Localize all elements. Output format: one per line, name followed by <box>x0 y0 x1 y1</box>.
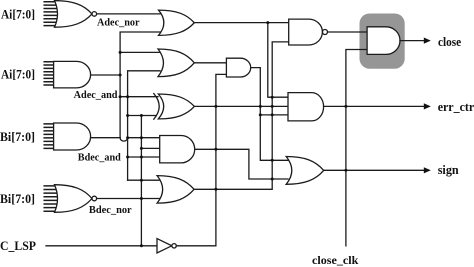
wire XOR in2 from V2 <box>128 115 156 117</box>
gate AND2 small <box>226 58 250 77</box>
wire inverter out to V4 riser <box>176 74 226 245</box>
svg-text:Adec_and: Adec_and <box>74 90 118 101</box>
wire AND3 in3 from V2 <box>128 156 161 158</box>
wire hop under at V1-V2 <box>120 138 128 141</box>
gate AND3 err <box>288 93 324 121</box>
wire NAND out to highlighted AND <box>328 31 367 33</box>
svg-text:err_ctr: err_ctr <box>438 100 474 114</box>
svg-text:Bi[7:0]: Bi[7:0] <box>0 191 35 206</box>
wire bus teeth Adec_and <box>44 62 56 85</box>
wire V2 distribution <box>128 71 160 180</box>
gate XOR2_1 extra arc <box>154 94 159 120</box>
gate NOR8 Bdec_nor <box>55 185 97 213</box>
wire err_ctr output with arrow <box>324 105 425 107</box>
gate inverter U1 <box>157 239 176 253</box>
wire ANDsm output to V6 <box>251 68 289 161</box>
wire XOR output to ANDerr in2 <box>194 105 288 107</box>
gate AND close (highlighted) <box>367 27 400 55</box>
gate AND8 Bdec_and <box>54 123 91 150</box>
gate XOR2_1 body <box>158 94 194 119</box>
wire bus teeth Adec_nor <box>44 2 58 26</box>
highlight box around close AND gate <box>360 14 405 69</box>
wire close output with arrow <box>400 40 425 42</box>
wire OR2_2 output to ANDsm <box>194 62 226 64</box>
wire C_LSP to inverter <box>46 245 157 247</box>
svg-text:C_LSP: C_LSP <box>0 239 36 253</box>
gate AND8 Adec_and <box>54 61 91 88</box>
svg-text:Adec_nor: Adec_nor <box>97 17 140 28</box>
gate OR2_3 <box>157 176 194 204</box>
wire AND3 in2 from V3 <box>141 147 161 149</box>
wire V1 Adec_and distribution <box>120 32 162 137</box>
svg-text:Bdec_nor: Bdec_nor <box>89 205 132 216</box>
wire Adec_and output <box>91 74 121 76</box>
svg-text:close: close <box>438 35 462 49</box>
wire OR2_1 output to NAND <box>194 22 288 24</box>
wire V3 C_LSP riser <box>140 116 142 246</box>
wire bus teeth Bdec_and <box>44 124 56 148</box>
gate OR2_1 <box>159 10 195 35</box>
wire V9 close_clk riser <box>346 50 367 246</box>
gate OR2 sign <box>286 157 324 185</box>
gate NOR8 Adec_nor <box>55 1 97 28</box>
svg-text:Ai[7:0]: Ai[7:0] <box>1 67 35 82</box>
wire OR2_3 in1 from V2 <box>128 179 162 181</box>
wire OR2_3 output to V7 riser to NAND in2 <box>194 42 289 189</box>
svg-text:Bdec_and: Bdec_and <box>78 153 121 164</box>
wire bus teeth Bdec_nor <box>44 186 58 211</box>
gate AND3_1 <box>160 136 195 163</box>
wire ANDerr in3 from V6 <box>260 114 288 116</box>
wire OR2_2 in1 from V1 <box>120 51 160 53</box>
wire V8 from OR2_1 out to ANDerr in1 <box>268 23 288 98</box>
wire Adec_nor output <box>97 13 162 15</box>
svg-text:Bi[7:0]: Bi[7:0] <box>0 129 35 144</box>
wire sign output with arrow <box>324 169 425 171</box>
gate OR2_2 <box>158 49 194 77</box>
svg-text:close_clk: close_clk <box>312 255 359 267</box>
wire Bdec_and output to AND3 with hop <box>91 137 160 139</box>
svg-text:Ai[7:0]: Ai[7:0] <box>1 7 35 22</box>
wire XOR in1 from V1 <box>120 96 158 98</box>
wire AND3 output path to ORsign in2 <box>195 149 288 179</box>
gate NAND2 <box>289 19 328 45</box>
wire Bdec_nor output to OR2_3 <box>97 198 162 200</box>
svg-text:sign: sign <box>438 163 459 177</box>
